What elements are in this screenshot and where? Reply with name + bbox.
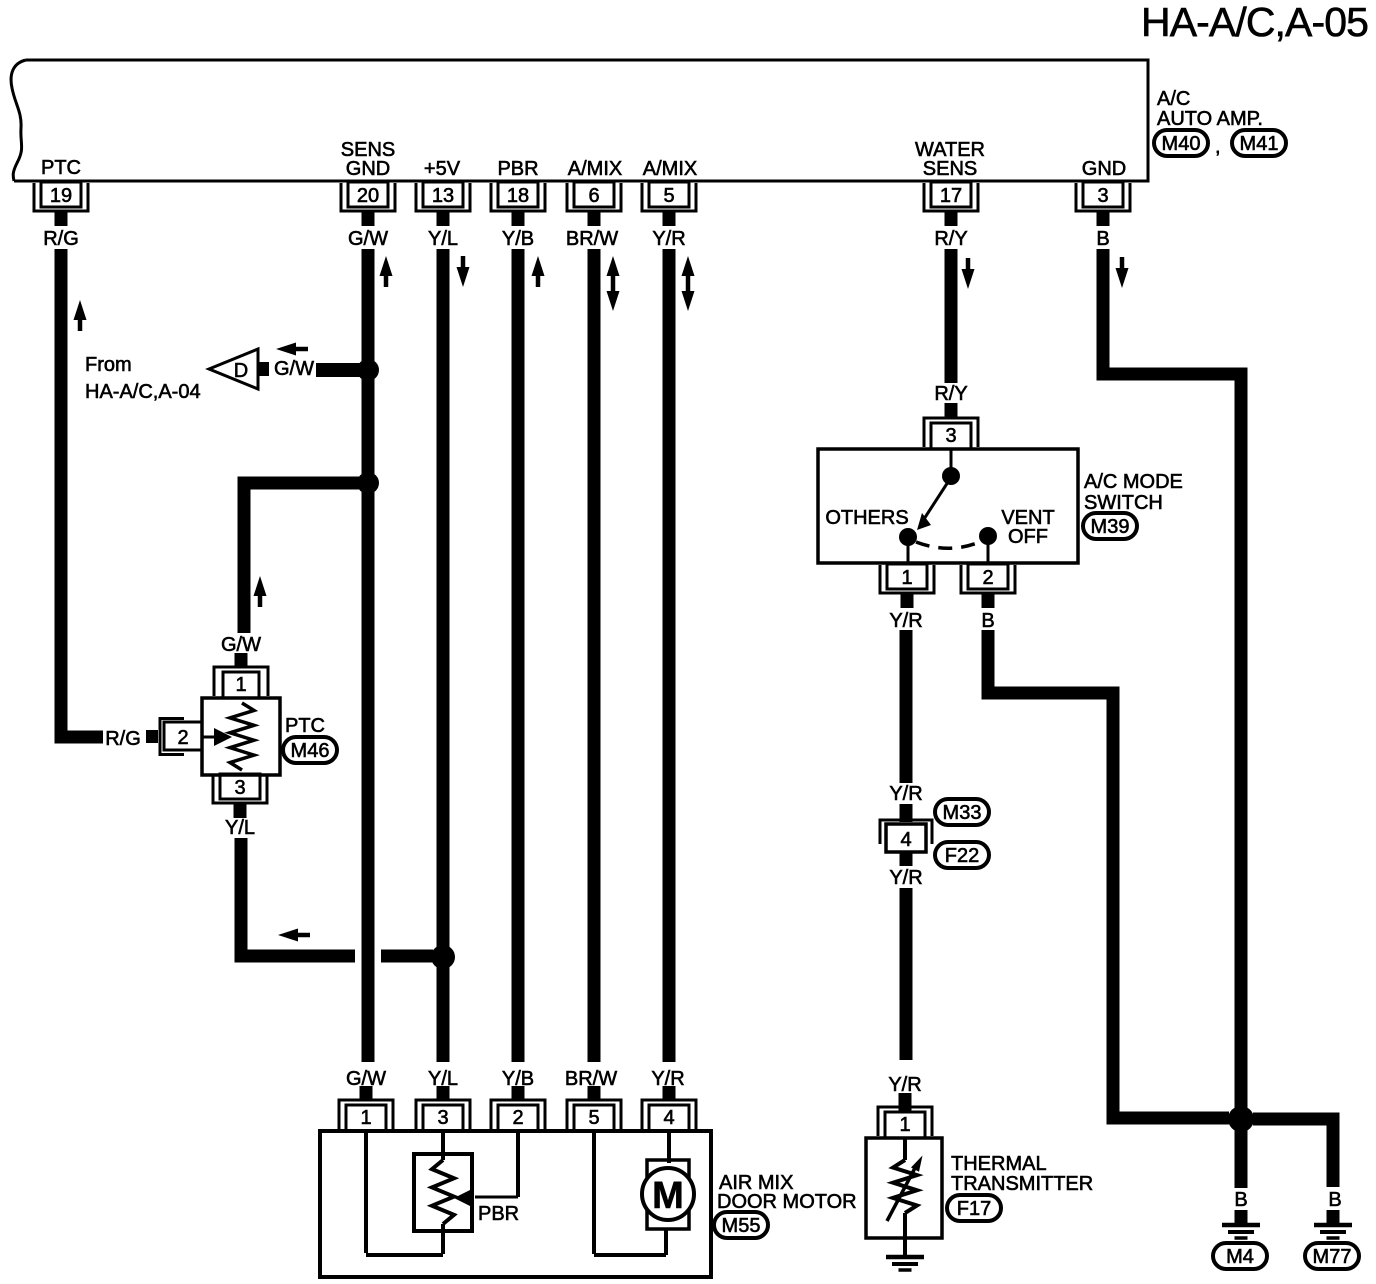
svg-text:DOOR MOTOR: DOOR MOTOR xyxy=(717,1191,857,1213)
svg-text:3: 3 xyxy=(234,777,245,799)
svg-text:OFF: OFF xyxy=(1008,526,1048,548)
svg-text:GND: GND xyxy=(1082,158,1126,180)
svg-text:M41: M41 xyxy=(1240,133,1279,155)
svg-text:2: 2 xyxy=(177,727,188,749)
svg-text:A/C: A/C xyxy=(1157,88,1190,110)
svg-text:2: 2 xyxy=(512,1107,523,1129)
svg-text:PTC: PTC xyxy=(41,157,81,179)
svg-text:M39: M39 xyxy=(1091,516,1130,538)
svg-text:D: D xyxy=(234,360,248,382)
svg-text:G/W: G/W xyxy=(274,358,314,380)
svg-text:A/MIX: A/MIX xyxy=(643,158,697,180)
svg-text:GND: GND xyxy=(346,158,390,180)
svg-text:THERMAL: THERMAL xyxy=(951,1153,1047,1175)
svg-text:F17: F17 xyxy=(957,1198,991,1220)
svg-text:HA-A/C,A-04: HA-A/C,A-04 xyxy=(85,381,201,403)
svg-text:M33: M33 xyxy=(943,802,982,824)
svg-text:B: B xyxy=(1234,1189,1247,1211)
svg-text:4: 4 xyxy=(663,1107,674,1129)
svg-text:18: 18 xyxy=(507,185,529,207)
svg-text:PBR: PBR xyxy=(497,158,538,180)
svg-text:M: M xyxy=(652,1175,684,1217)
svg-text:HA-A/C,A-05: HA-A/C,A-05 xyxy=(1141,0,1368,45)
svg-text:3: 3 xyxy=(437,1107,448,1129)
svg-text:Y/R: Y/R xyxy=(889,867,922,889)
svg-text:F22: F22 xyxy=(945,845,979,867)
svg-text:BR/W: BR/W xyxy=(566,228,618,250)
svg-text:B: B xyxy=(981,610,994,632)
svg-text:19: 19 xyxy=(50,185,72,207)
svg-text:A/C MODE: A/C MODE xyxy=(1084,471,1183,493)
svg-text:1: 1 xyxy=(899,1114,910,1136)
svg-text:PTC: PTC xyxy=(285,715,325,737)
svg-text:R/G: R/G xyxy=(43,228,79,250)
svg-text:6: 6 xyxy=(588,185,599,207)
svg-text:Y/L: Y/L xyxy=(428,228,458,250)
svg-text:G/W: G/W xyxy=(348,228,388,250)
svg-text:Y/L: Y/L xyxy=(225,817,255,839)
svg-text:G/W: G/W xyxy=(221,634,261,656)
svg-text:5: 5 xyxy=(663,185,674,207)
svg-text:+5V: +5V xyxy=(424,158,461,180)
svg-text:13: 13 xyxy=(432,185,454,207)
svg-text:M46: M46 xyxy=(291,740,330,762)
svg-text:3: 3 xyxy=(945,425,956,447)
svg-text:SENS: SENS xyxy=(923,158,977,180)
svg-text:1: 1 xyxy=(235,674,246,696)
svg-text:Y/R: Y/R xyxy=(889,610,922,632)
svg-text:R/Y: R/Y xyxy=(934,228,967,250)
svg-text:TRANSMITTER: TRANSMITTER xyxy=(951,1173,1093,1195)
svg-text:AUTO AMP.: AUTO AMP. xyxy=(1157,108,1263,130)
svg-text:SWITCH: SWITCH xyxy=(1084,492,1163,514)
svg-text:2: 2 xyxy=(982,567,993,589)
svg-text:20: 20 xyxy=(357,185,379,207)
svg-text:B: B xyxy=(1328,1189,1341,1211)
svg-text:1: 1 xyxy=(901,567,912,589)
svg-text:From: From xyxy=(85,354,132,376)
svg-text:OTHERS: OTHERS xyxy=(825,507,908,529)
svg-text:M77: M77 xyxy=(1313,1246,1352,1268)
svg-text:M40: M40 xyxy=(1162,133,1201,155)
svg-text:1: 1 xyxy=(360,1107,371,1129)
svg-text:3: 3 xyxy=(1097,185,1108,207)
svg-text:Y/R: Y/R xyxy=(652,228,685,250)
svg-text:A/MIX: A/MIX xyxy=(568,158,622,180)
svg-text:,: , xyxy=(1215,136,1221,158)
svg-text:Y/R: Y/R xyxy=(888,1074,921,1096)
svg-text:B: B xyxy=(1096,228,1109,250)
svg-text:R/Y: R/Y xyxy=(934,383,967,405)
svg-text:Y/R: Y/R xyxy=(889,783,922,805)
svg-text:M4: M4 xyxy=(1226,1246,1254,1268)
svg-text:PBR: PBR xyxy=(478,1203,519,1225)
svg-text:4: 4 xyxy=(900,829,911,851)
svg-text:R/G: R/G xyxy=(105,728,141,750)
svg-text:17: 17 xyxy=(940,185,962,207)
svg-text:Y/B: Y/B xyxy=(502,228,534,250)
svg-text:M55: M55 xyxy=(722,1215,761,1237)
svg-text:5: 5 xyxy=(588,1107,599,1129)
